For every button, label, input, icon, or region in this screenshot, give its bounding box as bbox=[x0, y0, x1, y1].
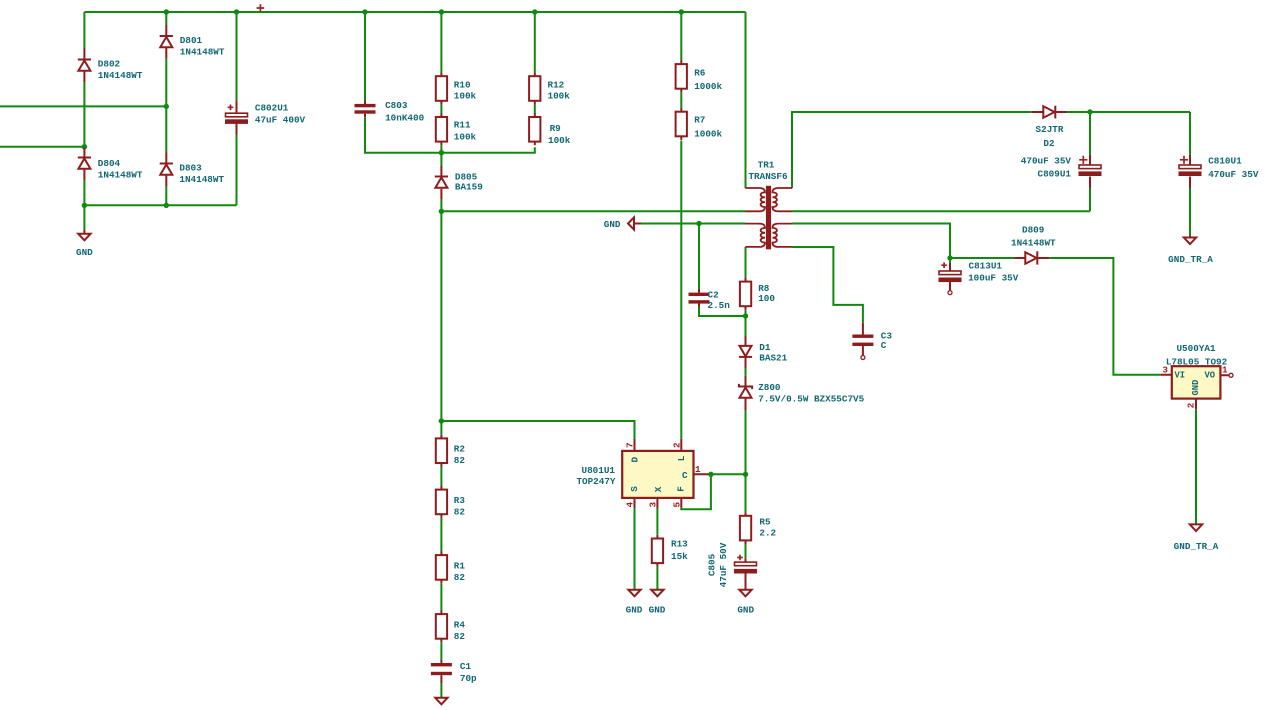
svg-text:D1: D1 bbox=[759, 342, 771, 353]
svg-text:82: 82 bbox=[454, 572, 466, 583]
svg-text:GND: GND bbox=[76, 247, 93, 258]
svg-text:15k: 15k bbox=[671, 551, 688, 562]
svg-text:C809U1: C809U1 bbox=[1038, 169, 1072, 180]
svg-text:R4: R4 bbox=[454, 620, 466, 631]
svg-text:D809: D809 bbox=[1022, 225, 1045, 236]
svg-text:C1: C1 bbox=[460, 661, 472, 672]
svg-text:1000k: 1000k bbox=[694, 129, 722, 140]
svg-text:R7: R7 bbox=[694, 115, 705, 126]
svg-text:1N4148WT: 1N4148WT bbox=[180, 46, 225, 57]
svg-text:100k: 100k bbox=[548, 135, 571, 146]
svg-text:C: C bbox=[682, 470, 688, 481]
svg-text:GND: GND bbox=[626, 604, 643, 615]
svg-text:2.5n: 2.5n bbox=[708, 300, 731, 311]
svg-text:L: L bbox=[676, 455, 687, 461]
svg-text:GND: GND bbox=[649, 604, 666, 615]
svg-text:C810U1: C810U1 bbox=[1208, 156, 1242, 167]
svg-text:D804: D804 bbox=[98, 158, 121, 169]
svg-text:TR1: TR1 bbox=[758, 160, 775, 171]
svg-text:82: 82 bbox=[454, 631, 466, 642]
svg-text:R5: R5 bbox=[759, 517, 771, 528]
svg-text:R11: R11 bbox=[454, 120, 471, 131]
svg-text:100: 100 bbox=[758, 293, 775, 304]
svg-text:L78L05_TO92: L78L05_TO92 bbox=[1166, 357, 1228, 368]
svg-text:R1: R1 bbox=[454, 561, 466, 572]
svg-text:1: 1 bbox=[695, 464, 701, 475]
svg-text:GND: GND bbox=[604, 219, 621, 230]
svg-text:R10: R10 bbox=[454, 79, 471, 90]
svg-text:BA159: BA159 bbox=[455, 182, 483, 193]
svg-text:7: 7 bbox=[625, 442, 636, 448]
svg-text:TRANSF6: TRANSF6 bbox=[748, 171, 787, 182]
svg-text:1000k: 1000k bbox=[694, 81, 722, 92]
svg-text:D802: D802 bbox=[98, 59, 121, 70]
svg-text:82: 82 bbox=[454, 455, 466, 466]
svg-text:1N4148WT: 1N4148WT bbox=[98, 70, 143, 81]
svg-text:C813U1: C813U1 bbox=[969, 261, 1003, 272]
svg-text:C802U1: C802U1 bbox=[255, 103, 289, 114]
svg-text:D: D bbox=[629, 457, 640, 463]
svg-text:100k: 100k bbox=[454, 91, 477, 102]
svg-text:470uF 35V: 470uF 35V bbox=[1208, 169, 1259, 180]
svg-text:GND_TR_A: GND_TR_A bbox=[1174, 541, 1219, 552]
svg-text:TOP247Y: TOP247Y bbox=[576, 476, 615, 487]
svg-text:100uF 35V: 100uF 35V bbox=[968, 272, 1019, 283]
svg-text:D801: D801 bbox=[180, 35, 203, 46]
svg-text:R3: R3 bbox=[454, 495, 466, 506]
svg-text:C805: C805 bbox=[707, 553, 718, 576]
svg-text:S2JTR: S2JTR bbox=[1036, 124, 1064, 135]
svg-text:2: 2 bbox=[671, 442, 682, 448]
svg-text:X: X bbox=[653, 486, 664, 492]
svg-text:C: C bbox=[881, 340, 887, 351]
svg-text:10nK400: 10nK400 bbox=[385, 112, 424, 123]
svg-text:U500YA1: U500YA1 bbox=[1176, 343, 1215, 354]
svg-text:82: 82 bbox=[454, 507, 466, 518]
svg-text:70p: 70p bbox=[460, 673, 477, 684]
svg-text:R6: R6 bbox=[694, 68, 706, 79]
svg-text:GND: GND bbox=[737, 604, 754, 615]
svg-text:100k: 100k bbox=[548, 91, 571, 102]
svg-text:47uF 400V: 47uF 400V bbox=[255, 115, 306, 126]
svg-text:GND_TR_A: GND_TR_A bbox=[1168, 254, 1213, 265]
svg-text:470uF 35V: 470uF 35V bbox=[1021, 156, 1072, 167]
svg-text:3: 3 bbox=[647, 502, 658, 508]
svg-text:U801U1: U801U1 bbox=[582, 465, 616, 476]
svg-text:S: S bbox=[629, 486, 640, 492]
svg-text:C803: C803 bbox=[385, 100, 408, 111]
svg-text:D2: D2 bbox=[1043, 138, 1055, 149]
svg-text:1N4148WT: 1N4148WT bbox=[98, 169, 143, 180]
svg-text:3: 3 bbox=[1162, 365, 1168, 376]
svg-text:D803: D803 bbox=[179, 163, 202, 174]
svg-text:1: 1 bbox=[1222, 365, 1228, 376]
svg-text:2.2: 2.2 bbox=[759, 528, 776, 539]
svg-text:VI: VI bbox=[1175, 371, 1186, 381]
svg-text:R2: R2 bbox=[454, 444, 466, 455]
svg-text:C2: C2 bbox=[708, 290, 720, 301]
svg-text:1N4148WT: 1N4148WT bbox=[179, 174, 224, 185]
svg-text:F: F bbox=[676, 486, 687, 492]
svg-text:R12: R12 bbox=[548, 79, 565, 90]
svg-text:1N4148WT: 1N4148WT bbox=[1011, 238, 1056, 249]
svg-text:Z800: Z800 bbox=[758, 382, 781, 393]
svg-text:BAS21: BAS21 bbox=[759, 353, 787, 364]
svg-text:47uF 50V: 47uF 50V bbox=[718, 542, 729, 587]
svg-text:GND: GND bbox=[1191, 380, 1201, 396]
svg-text:7.5V/0.5W BZX55C7V5: 7.5V/0.5W BZX55C7V5 bbox=[758, 394, 864, 405]
svg-text:5: 5 bbox=[671, 502, 682, 508]
svg-text:R9: R9 bbox=[550, 123, 562, 134]
svg-text:R13: R13 bbox=[671, 539, 688, 550]
svg-text:VO: VO bbox=[1205, 371, 1216, 381]
svg-text:100k: 100k bbox=[454, 132, 477, 143]
svg-text:2: 2 bbox=[1185, 402, 1196, 408]
svg-text:4: 4 bbox=[625, 502, 636, 508]
